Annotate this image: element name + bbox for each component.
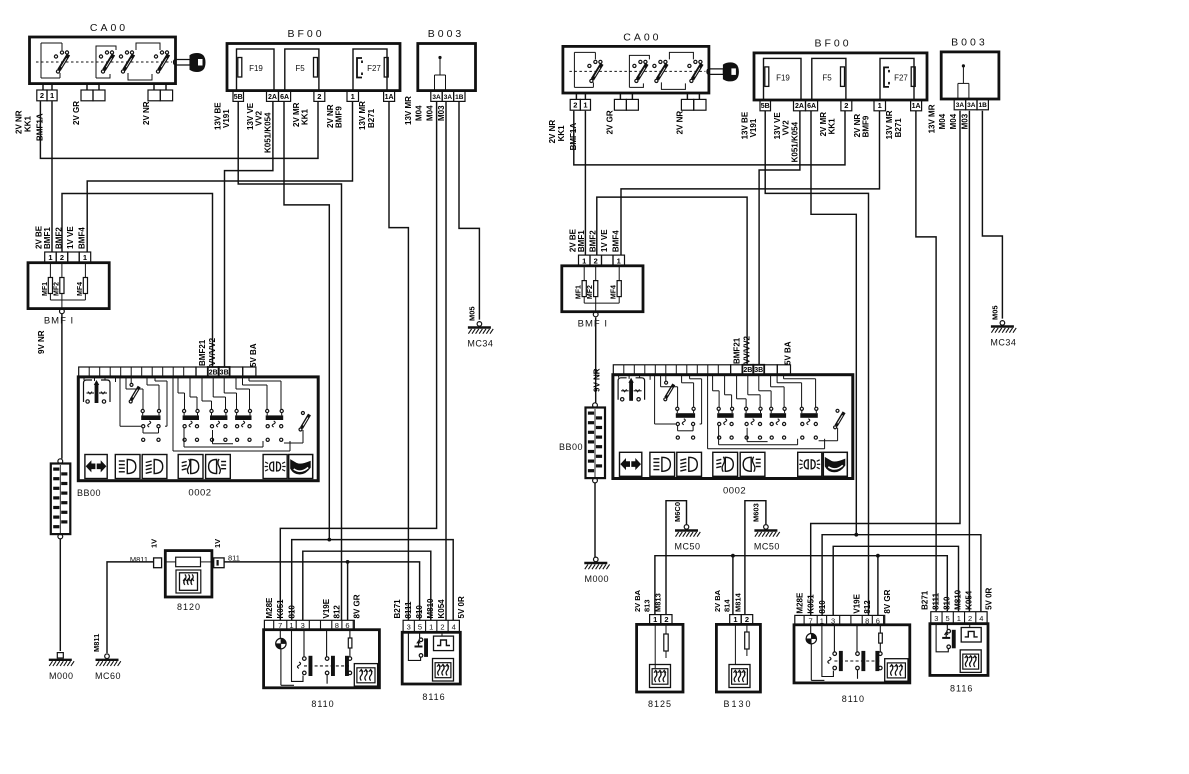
svg-text:V191: V191 [749,118,758,137]
svg-text:MF2: MF2 [53,282,60,296]
svg-text:8110: 8110 [842,694,865,704]
svg-text:2: 2 [664,615,668,624]
svg-text:BMF4: BMF4 [78,227,87,249]
svg-text:BMF9: BMF9 [862,115,871,137]
svg-text:1: 1 [50,91,54,100]
svg-text:2: 2 [60,253,64,262]
svg-text:KK1: KK1 [828,118,837,135]
svg-text:9V NR: 9V NR [593,368,602,392]
svg-text:2B: 2B [209,369,218,376]
svg-text:BMF1: BMF1 [577,230,586,252]
svg-text:8V GR: 8V GR [353,594,362,618]
svg-text:BF00: BF00 [287,28,324,40]
svg-text:2: 2 [594,256,598,265]
svg-text:8110: 8110 [311,699,334,709]
svg-text:3A: 3A [432,94,441,101]
svg-text:1: 1 [653,615,657,624]
svg-text:M04: M04 [415,105,424,121]
svg-text:KK1: KK1 [24,115,33,132]
svg-text:5B: 5B [761,103,770,110]
svg-text:F27: F27 [367,64,381,73]
svg-text:K054: K054 [437,599,446,619]
svg-text:6A: 6A [807,103,816,110]
svg-text:F19: F19 [776,73,790,82]
svg-text:13V MR: 13V MR [358,101,367,130]
svg-text:2: 2 [968,614,972,623]
svg-text:2V NR: 2V NR [548,120,557,144]
svg-text:MC50: MC50 [754,542,780,552]
svg-text:2: 2 [440,623,444,632]
svg-text:813: 813 [643,599,652,612]
svg-text:812: 812 [863,600,872,614]
svg-text:M000: M000 [49,671,74,681]
svg-text:5V 0R: 5V 0R [985,587,994,609]
svg-text:MF1: MF1 [576,285,583,299]
svg-text:811: 811 [228,554,240,563]
svg-text:M603: M603 [751,503,760,522]
svg-text:2V NR: 2V NR [15,110,24,134]
svg-text:1: 1 [583,101,587,110]
svg-text:1: 1 [48,253,52,262]
svg-text:3B: 3B [754,367,763,374]
svg-text:M811: M811 [92,634,101,652]
svg-text:9V NR: 9V NR [37,330,46,354]
svg-text:M05: M05 [991,305,1000,320]
svg-text:5V BA: 5V BA [784,341,793,365]
svg-text:2: 2 [573,101,577,110]
svg-text:3: 3 [934,614,938,623]
svg-text:F5: F5 [822,73,832,82]
svg-text:3A: 3A [444,94,453,101]
svg-text:3: 3 [831,616,835,625]
svg-text:MC50: MC50 [674,542,700,552]
svg-text:M05: M05 [468,306,477,321]
svg-text:BB00: BB00 [559,442,583,452]
svg-text:BMF I: BMF I [578,319,608,330]
svg-text:8V GR: 8V GR [883,589,892,613]
svg-text:2V GR: 2V GR [605,110,614,134]
svg-text:MC34: MC34 [990,338,1016,348]
svg-text:814: 814 [723,599,732,612]
svg-text:0002: 0002 [723,485,746,496]
svg-text:2: 2 [844,101,848,110]
svg-text:M6C0: M6C0 [673,502,682,522]
svg-text:BMF21: BMF21 [733,337,742,364]
svg-text:6: 6 [345,621,349,630]
svg-text:8: 8 [335,621,339,630]
svg-text:F27: F27 [894,73,908,82]
svg-text:5: 5 [418,623,422,632]
svg-text:1V: 1V [213,539,222,548]
svg-text:V191: V191 [222,109,231,128]
svg-text:1A: 1A [912,103,921,110]
svg-text:M000: M000 [585,574,610,584]
svg-text:VV/VV2: VV/VV2 [208,337,217,366]
svg-text:1: 1 [957,614,961,623]
svg-text:3A: 3A [956,102,965,109]
svg-text:V19E: V19E [322,598,331,618]
svg-text:VV/VV2: VV/VV2 [743,335,752,364]
svg-text:BB00: BB00 [77,488,101,498]
svg-text:BMF9: BMF9 [335,106,344,128]
svg-text:1: 1 [878,101,882,110]
svg-text:7: 7 [278,621,282,630]
svg-text:BMF I: BMF I [44,316,74,327]
svg-text:1: 1 [289,621,293,630]
svg-text:K051/K054: K051/K054 [791,121,800,162]
svg-text:BMF1: BMF1 [43,227,52,249]
svg-text:1V VE: 1V VE [66,226,75,249]
svg-text:2V NR: 2V NR [142,101,151,125]
svg-text:6: 6 [876,616,880,625]
svg-text:K051/K054: K051/K054 [264,112,273,153]
svg-text:B271: B271 [367,108,376,128]
svg-text:5V BA: 5V BA [249,343,258,367]
svg-text:8: 8 [865,616,869,625]
svg-text:8120: 8120 [177,602,201,612]
svg-text:1V: 1V [150,539,159,548]
svg-text:BMF21: BMF21 [198,339,207,366]
svg-text:812: 812 [333,605,342,619]
svg-text:3: 3 [407,623,411,632]
svg-text:B130: B130 [723,699,752,709]
svg-text:2B: 2B [743,367,752,374]
svg-text:VV2: VV2 [255,110,264,126]
svg-text:5: 5 [946,614,950,623]
svg-text:2V NR: 2V NR [675,111,684,135]
svg-text:1: 1 [351,92,355,101]
svg-text:2: 2 [745,615,749,624]
svg-text:2A: 2A [795,103,804,110]
svg-text:M811: M811 [130,555,148,564]
svg-text:B271: B271 [894,118,903,138]
svg-text:3A: 3A [967,102,976,109]
svg-text:4: 4 [452,623,456,632]
svg-text:8125: 8125 [648,699,672,709]
svg-text:7: 7 [809,616,813,625]
svg-text:MF4: MF4 [77,282,84,296]
svg-text:13V MR: 13V MR [885,110,894,139]
svg-text:M03: M03 [960,113,969,129]
svg-text:KK1: KK1 [301,108,310,125]
svg-text:2: 2 [40,91,44,100]
svg-text:1: 1 [820,616,824,625]
svg-text:1: 1 [582,256,586,265]
svg-text:3B: 3B [220,369,229,376]
svg-text:B271: B271 [921,590,930,610]
svg-text:MF1: MF1 [42,282,49,296]
svg-text:3: 3 [301,621,305,630]
svg-text:V19E: V19E [852,593,861,613]
svg-text:1B: 1B [455,94,464,101]
svg-text:1: 1 [429,623,433,632]
svg-text:B271: B271 [393,599,402,619]
svg-text:MC34: MC34 [467,339,493,349]
svg-text:1V VE: 1V VE [600,229,609,252]
svg-text:5B: 5B [234,94,243,101]
svg-text:13V MR: 13V MR [404,96,413,125]
svg-text:2: 2 [317,92,321,101]
svg-text:MC60: MC60 [95,671,121,681]
svg-text:KK1: KK1 [557,125,566,142]
svg-text:2A: 2A [268,94,277,101]
svg-text:8116: 8116 [950,683,973,693]
svg-text:M04: M04 [426,105,435,121]
svg-text:M04: M04 [949,113,958,129]
svg-text:8116: 8116 [422,692,445,702]
svg-text:CA00: CA00 [90,22,128,34]
svg-text:1: 1 [83,253,87,262]
svg-text:1: 1 [733,615,737,624]
svg-text:F5: F5 [295,64,305,73]
svg-text:MF2: MF2 [587,285,594,299]
svg-text:MF4: MF4 [611,285,618,299]
svg-text:F19: F19 [249,64,263,73]
svg-text:M03: M03 [437,105,446,121]
svg-text:M04: M04 [938,113,947,129]
svg-text:BF00: BF00 [814,37,851,49]
svg-text:5V 0R: 5V 0R [457,596,466,618]
svg-text:1A: 1A [385,94,394,101]
svg-text:6A: 6A [280,94,289,101]
svg-text:B003: B003 [951,36,988,48]
svg-text:M28E: M28E [795,592,804,614]
svg-text:1B: 1B [979,102,988,109]
svg-text:13V MR: 13V MR [927,104,936,133]
svg-text:VV2: VV2 [782,120,791,136]
svg-text:4: 4 [979,614,983,623]
svg-text:2V BA: 2V BA [713,589,722,612]
svg-text:1: 1 [617,256,621,265]
svg-text:BMF4: BMF4 [611,230,620,252]
svg-text:2V GR: 2V GR [72,101,81,125]
svg-text:B003: B003 [428,28,465,40]
svg-text:CA00: CA00 [623,31,661,43]
svg-text:M28E: M28E [265,597,274,619]
svg-text:BMF2: BMF2 [588,230,597,252]
svg-text:M814: M814 [734,592,743,612]
svg-text:0002: 0002 [188,488,211,499]
svg-text:2V BA: 2V BA [633,589,642,612]
